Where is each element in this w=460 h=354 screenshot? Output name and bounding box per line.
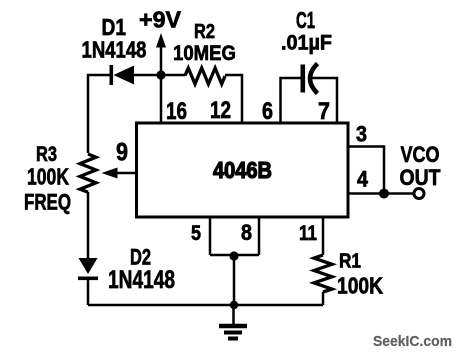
svg-text:R1: R1 — [339, 251, 361, 273]
wire pin 8 stub — [258, 216, 261, 255]
node junction dot pins 5-8 — [229, 251, 238, 260]
wire pin 5 stub — [209, 216, 212, 255]
svg-text:SeekIC.com: SeekIC.com — [373, 333, 452, 350]
svg-text:OUT: OUT — [400, 165, 441, 190]
IC U1 4046B body — [137, 123, 349, 217]
svg-text:3: 3 — [356, 122, 367, 147]
wire C1 right to pin 7 — [310, 78, 337, 123]
resistor R1 zigzag — [314, 255, 332, 292]
wire D2 to ground rail — [87, 280, 90, 305]
svg-text:9: 9 — [116, 139, 128, 167]
ground bar 3 — [228, 337, 238, 341]
wire D1 anode to +9V junction — [134, 74, 161, 77]
output terminal circle — [414, 189, 424, 199]
diode D1 cathode bar — [110, 65, 114, 85]
svg-text:4046B: 4046B — [213, 157, 272, 183]
svg-text:4: 4 — [357, 167, 369, 192]
svg-text:8: 8 — [241, 220, 252, 245]
wire pin 6 to C1 left — [281, 78, 302, 123]
svg-text:5: 5 — [191, 222, 201, 245]
wire junction to R2 — [161, 74, 185, 77]
svg-text:C1: C1 — [296, 7, 315, 33]
node junction dot on rail — [230, 301, 238, 309]
svg-text:11: 11 — [299, 222, 317, 245]
ground bar 2 — [224, 331, 242, 335]
wire pin 4 to output terminal — [348, 192, 414, 195]
wire ground rail — [88, 304, 323, 307]
wire D1 cathode to pot top (L corner) — [88, 75, 110, 153]
resistor R2 zigzag — [185, 68, 225, 84]
svg-text:FREQ: FREQ — [24, 190, 71, 215]
svg-text:+9V: +9V — [139, 7, 182, 33]
wire pin5-pin8 connector — [210, 254, 259, 257]
power +9V arrowhead — [156, 33, 166, 48]
svg-text:1N4148: 1N4148 — [82, 37, 147, 63]
ground bar 1 — [219, 324, 247, 329]
wire junction to rail — [233, 256, 236, 305]
potentiometer R3 zigzag — [80, 154, 96, 192]
svg-text:.01µF: .01µF — [281, 32, 332, 55]
svg-text:1N4148: 1N4148 — [108, 266, 175, 294]
svg-text:100K: 100K — [27, 164, 69, 190]
capacitor C1 left plate — [301, 65, 306, 93]
svg-text:6: 6 — [262, 98, 273, 125]
diode D2 cathode bar — [78, 277, 98, 281]
svg-text:VCO: VCO — [401, 142, 440, 167]
ground stem — [232, 305, 235, 325]
power +9V arrow stem — [160, 45, 163, 75]
wire pin 11 to R1 — [322, 216, 325, 255]
svg-text:16: 16 — [166, 98, 187, 125]
node junction dot at +9V — [156, 70, 165, 79]
wire R1 to rail — [322, 292, 325, 305]
svg-text:12: 12 — [210, 97, 231, 124]
svg-text:10MEG: 10MEG — [173, 42, 236, 65]
svg-text:7: 7 — [318, 98, 330, 125]
wire pin 9 to pot wiper — [112, 172, 136, 175]
svg-text:R2: R2 — [194, 21, 215, 43]
diode D1 triangle — [114, 66, 135, 85]
pot wiper arrowhead — [102, 168, 118, 179]
wire R2 to pin 12 — [225, 75, 242, 123]
wire pin 3 stub — [348, 147, 384, 194]
wire junction to pin 16 — [160, 75, 163, 123]
wire pot bottom to D2 — [87, 192, 90, 258]
diode D2 triangle — [79, 258, 98, 274]
node junction dot pins 3-4 — [379, 189, 389, 199]
capacitor C1 right curved plate — [310, 64, 318, 94]
svg-text:100K: 100K — [337, 273, 383, 299]
